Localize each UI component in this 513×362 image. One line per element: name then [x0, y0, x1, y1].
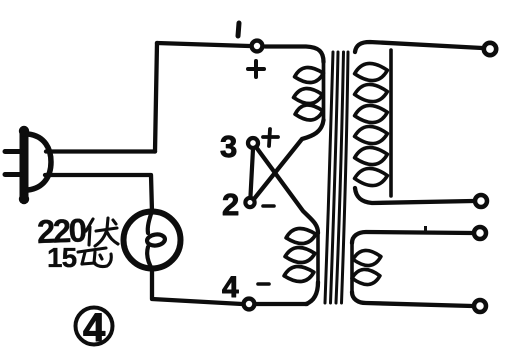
label 1 tick [238, 23, 239, 36]
wire plug top to riser [46, 149, 155, 153]
wire bottom rail [256, 302, 307, 306]
secondary coil bottom (2 loops) [351, 243, 381, 292]
label 220V [36, 211, 86, 250]
terminal secondary A [484, 43, 496, 55]
primary coil top (3 loops) [293, 62, 325, 122]
minus sign at terminal 4 [258, 282, 269, 286]
plus sign under terminal 1 [248, 61, 264, 77]
label 2 [222, 187, 239, 222]
svg-text:15: 15 [47, 242, 77, 273]
wire riser left vertical [155, 43, 157, 152]
terminal 4 [244, 299, 255, 310]
wire terminal 3 to primary bottom coil (crossing) [256, 147, 318, 233]
wire terminal 1 to primary coil top [265, 47, 324, 63]
plug P1 [5, 126, 51, 204]
lamp B1 [124, 211, 181, 269]
figure number circled 4 [76, 306, 113, 350]
wire secondary top coil upper lead [355, 42, 482, 52]
wire primary top coil to terminal 2 (crossing) [254, 120, 324, 199]
minus sign at terminal 2 [263, 204, 274, 208]
svg-text:3: 3 [220, 129, 237, 164]
terminal secondary C [474, 227, 486, 239]
label 4 [222, 271, 239, 304]
hanzi wa (watt) [78, 248, 111, 267]
terminal 1 [252, 41, 263, 52]
wire secondary bottom coil lower lead [352, 292, 472, 306]
wire link terminal 3 to terminal 2 [251, 149, 254, 196]
scan speck on secondary lead [424, 226, 427, 232]
wire lamp top to plug bottom wire [45, 175, 152, 212]
hanzi fu (volt) [86, 218, 118, 246]
svg-text:2: 2 [222, 187, 239, 222]
plus sign at terminal 3 [263, 129, 278, 146]
svg-text:4: 4 [83, 306, 106, 350]
svg-text:4: 4 [222, 271, 239, 304]
transformer core (4 lamination lines) [325, 52, 348, 303]
wire top horizontal [157, 43, 249, 46]
secondary coil top (6 loops) [354, 50, 391, 196]
wire terminal 4 to lamp corner [152, 270, 242, 304]
terminal 2 [245, 198, 254, 207]
wire secondary top coil lower lead [355, 188, 473, 203]
primary coil bottom (3 loops) [283, 227, 318, 284]
terminal secondary B [475, 195, 487, 207]
terminal 3 [248, 138, 258, 148]
label 15 [47, 242, 77, 273]
wire secondary bottom coil upper lead [352, 232, 472, 243]
wire primary bottom coil to bottom rail [306, 282, 318, 304]
label 3 [220, 129, 237, 164]
terminal secondary D [474, 300, 486, 312]
